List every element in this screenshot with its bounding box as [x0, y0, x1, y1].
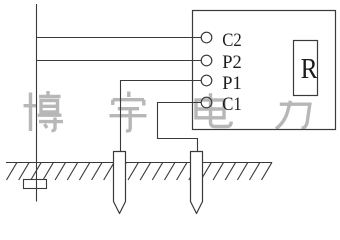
ground hatching — [7, 162, 273, 180]
earth rod wire (vertical, left) — [36, 4, 38, 202]
wire C2 — [36, 37, 201, 39]
probe 2 (right, current stake) — [191, 152, 203, 214]
resistor R box — [294, 41, 318, 96]
ground surface line — [6, 162, 272, 164]
watermark char 电 — [196, 93, 231, 126]
terminal C1 — [201, 97, 212, 108]
wire C1 — [158, 103, 202, 152]
svg-text:C1: C1 — [222, 94, 242, 115]
svg-text:P2: P2 — [222, 52, 242, 73]
svg-text:C2: C2 — [222, 30, 242, 51]
terminal P2 — [201, 55, 212, 66]
probe 1 (left, potential stake) — [114, 152, 126, 214]
watermark char 力 — [276, 101, 310, 129]
wire P1 — [121, 81, 202, 152]
terminal P1 — [201, 75, 212, 86]
svg-text:R: R — [301, 53, 319, 85]
terminal C2 — [201, 32, 212, 43]
svg-text:P1: P1 — [222, 73, 242, 94]
watermark char 博 — [24, 91, 64, 131]
earth electrode box — [24, 180, 47, 189]
watermark char 宇 — [110, 92, 147, 131]
wire P2 — [36, 60, 201, 62]
meter box — [193, 11, 336, 130]
